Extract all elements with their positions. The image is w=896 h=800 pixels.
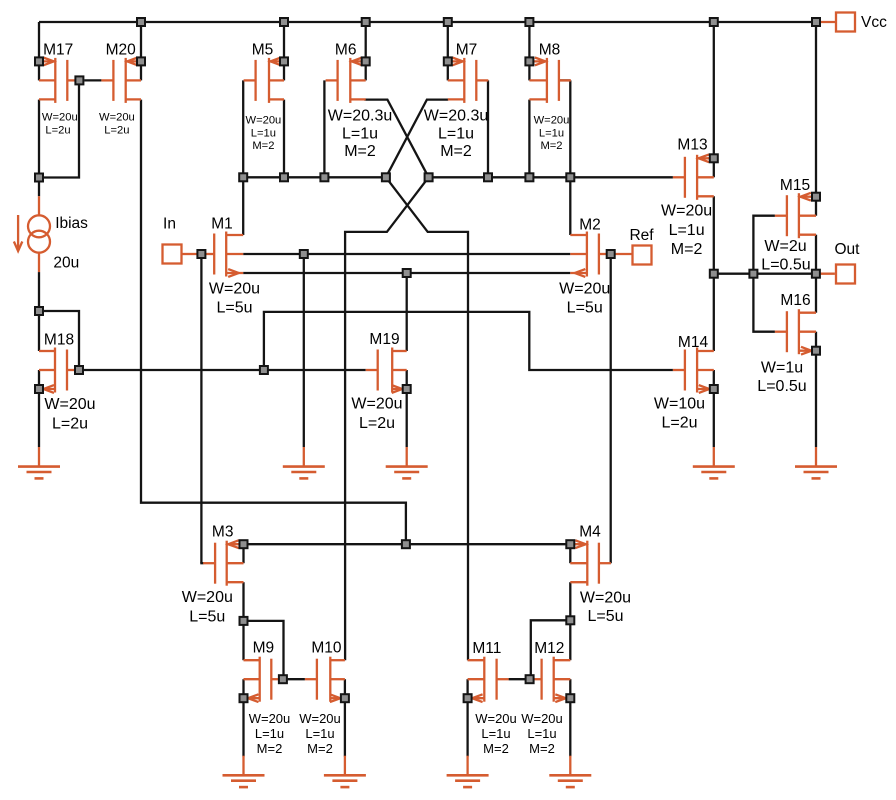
svg-text:L=2u: L=2u [661,415,697,432]
svg-text:W=20u: W=20u [44,396,95,413]
svg-text:20u: 20u [53,254,79,271]
svg-text:M=2: M=2 [671,241,703,258]
svg-text:L=1u: L=1u [481,726,510,741]
svg-text:W=20u: W=20u [559,281,610,298]
svg-text:L=5u: L=5u [567,300,603,317]
svg-text:L=2u: L=2u [52,415,88,432]
svg-text:M16: M16 [780,292,810,309]
svg-text:Out: Out [835,241,861,258]
svg-text:L=1u: L=1u [255,726,284,741]
svg-text:W=20u: W=20u [42,111,78,123]
svg-text:L=1u: L=1u [251,127,276,139]
svg-text:W=20u: W=20u [99,111,135,123]
svg-text:W=20.3u: W=20.3u [424,108,488,125]
svg-text:M10: M10 [311,640,342,657]
svg-text:M3: M3 [212,524,234,541]
svg-text:M=2: M=2 [529,741,555,756]
svg-text:M9: M9 [253,640,275,657]
svg-text:L=5u: L=5u [587,608,623,625]
svg-text:L=1u: L=1u [539,127,564,139]
svg-text:W=20u: W=20u [209,281,260,298]
svg-text:Ref: Ref [629,227,654,244]
svg-text:M4: M4 [579,524,601,541]
svg-text:Vcc: Vcc [861,14,887,31]
svg-text:M=2: M=2 [440,143,472,160]
svg-text:W=20u: W=20u [246,115,282,127]
svg-text:W=1u: W=1u [761,360,803,377]
svg-text:M=2: M=2 [344,143,376,160]
svg-text:W=20u: W=20u [182,589,233,606]
svg-text:W=20.3u: W=20.3u [328,108,392,125]
svg-text:L=5u: L=5u [216,300,252,317]
svg-text:M15: M15 [780,177,810,194]
svg-text:L=5u: L=5u [189,609,225,626]
svg-text:M=2: M=2 [252,140,274,152]
svg-text:L=0.5u: L=0.5u [757,378,806,395]
svg-text:M11: M11 [472,640,501,657]
svg-text:W=20u: W=20u [351,396,402,413]
svg-text:M7: M7 [456,42,478,59]
svg-text:L=1u: L=1u [438,125,474,142]
svg-text:W=20u: W=20u [521,711,563,726]
svg-text:L=2u: L=2u [104,125,129,137]
svg-text:M=2: M=2 [257,741,283,756]
svg-text:W=20u: W=20u [580,589,631,606]
svg-text:M6: M6 [335,42,357,59]
svg-text:W=20u: W=20u [661,203,712,220]
svg-text:L=0.5u: L=0.5u [761,257,810,274]
svg-text:M5: M5 [252,42,274,59]
svg-text:M1: M1 [211,216,233,233]
svg-text:L=2u: L=2u [359,415,395,432]
svg-text:L=1u: L=1u [669,222,705,239]
svg-text:W=10u: W=10u [654,396,705,413]
svg-text:M14: M14 [678,334,709,351]
svg-text:Ibias: Ibias [55,215,88,232]
svg-text:M=2: M=2 [483,741,509,756]
svg-text:L=2u: L=2u [45,125,70,137]
svg-text:L=1u: L=1u [305,726,334,741]
svg-text:L=1u: L=1u [527,726,556,741]
svg-text:W=20u: W=20u [249,711,291,726]
svg-text:M19: M19 [369,331,399,348]
svg-text:W=20u: W=20u [534,115,570,127]
svg-text:M8: M8 [539,42,561,59]
svg-text:W=2u: W=2u [764,238,806,255]
svg-text:M20: M20 [106,42,137,59]
svg-text:M13: M13 [677,137,707,154]
svg-text:M=2: M=2 [307,741,333,756]
svg-text:W=20u: W=20u [299,711,341,726]
svg-text:M12: M12 [534,640,564,657]
svg-text:L=1u: L=1u [342,125,378,142]
svg-text:W=20u: W=20u [475,711,517,726]
svg-text:M=2: M=2 [540,140,562,152]
svg-text:In: In [163,216,176,233]
svg-text:M2: M2 [579,217,601,234]
svg-text:M17: M17 [43,42,73,59]
svg-text:M18: M18 [44,331,74,348]
